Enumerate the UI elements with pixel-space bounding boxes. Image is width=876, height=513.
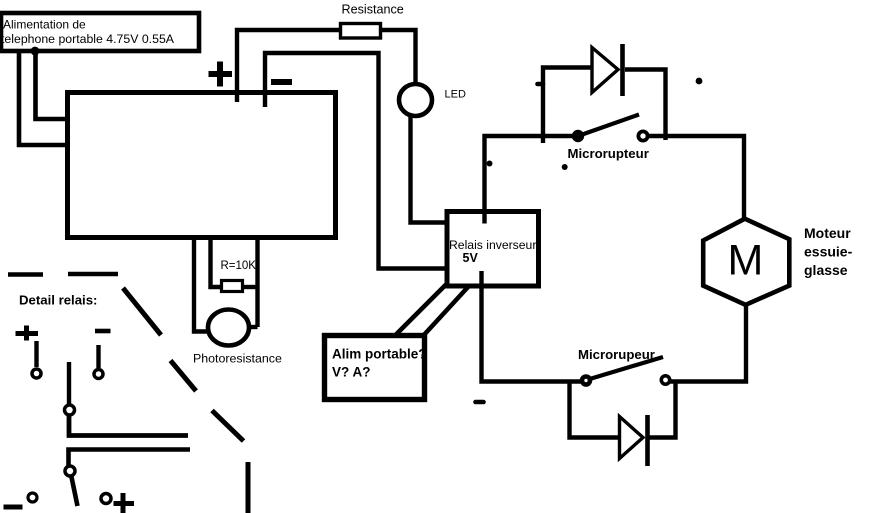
detail relais contact circle 4	[65, 466, 75, 476]
detail relais plus terminal	[16, 326, 39, 341]
detail relais dash 2	[68, 272, 118, 277]
wire minus terminal to relay pin 2	[265, 53, 446, 269]
detail relais contact circle 1	[32, 369, 41, 378]
svg-text:Detail relais:: Detail relais:	[19, 293, 97, 308]
detail relais wire circle 3 to bar	[69, 415, 188, 436]
wire relay bottom pin to microswitch 2	[482, 271, 583, 382]
detail relais lever	[72, 477, 78, 506]
wire resistor to LED	[381, 30, 416, 85]
svg-text:R=10K: R=10K	[221, 260, 257, 272]
detail relais bottom plus	[114, 493, 135, 513]
wire from supply to block input 1	[19, 51, 67, 145]
battery question box	[325, 336, 427, 400]
stray dot on relay top wire	[487, 161, 493, 167]
detail relais bottom minus	[4, 505, 23, 510]
detail relais contact circle 3	[65, 405, 75, 415]
svg-text:5V: 5V	[463, 251, 479, 265]
power supply box	[1, 13, 199, 51]
svg-text:LED: LED	[445, 89, 466, 101]
svg-text:Microrupteur: Microrupteur	[568, 146, 649, 161]
resistor R=10K	[221, 260, 257, 292]
microswitch S2	[578, 347, 670, 385]
svg-text:Photoresistance: Photoresistance	[193, 352, 282, 366]
cable line 1 relay to battery box	[396, 285, 446, 335]
wire diode 2 right to switch wire	[649, 382, 676, 438]
photoresistor R2	[193, 310, 282, 366]
wire resistor right to vertical	[242, 285, 258, 289]
svg-text:Moteur: Moteur	[804, 225, 851, 241]
svg-text:glasse: glasse	[804, 262, 848, 278]
detail relais contact circle 5	[28, 493, 37, 502]
wire diode 1 branch left vertical	[543, 68, 592, 144]
wire block pin down right side of divider	[255, 239, 259, 327]
wire relay top pin to microswitch 1	[485, 136, 579, 224]
resistor Resistance	[341, 3, 404, 39]
svg-text:Resistance: Resistance	[342, 3, 404, 17]
wire diode 1 right to branch vertical	[625, 70, 666, 141]
svg-text:Alimentation de: Alimentation de	[3, 18, 86, 32]
svg-text:V? A?: V? A?	[332, 365, 371, 380]
wire diode 2 branch left	[570, 382, 621, 438]
wire from supply to block input 2	[36, 51, 68, 119]
wire block pin to resistor R=10K	[211, 239, 223, 287]
wire motor bottom to microswitch 2	[670, 303, 746, 382]
detail relais middle wire	[67, 362, 71, 406]
wire plus terminal to resistor	[237, 30, 340, 102]
small dash mark below relay	[476, 400, 484, 405]
separator dash segment 3	[212, 411, 244, 442]
detail relais bar 2	[69, 450, 191, 467]
wire block pin to photoresistor left	[194, 239, 210, 332]
diode D2	[620, 415, 648, 466]
separator dash segment 1	[123, 288, 161, 335]
relay box U2	[447, 212, 539, 287]
plus terminal label	[209, 62, 233, 87]
motor M1	[703, 219, 852, 305]
LED D3	[399, 84, 466, 116]
svg-text:telephone portable 4.75V 0.55A: telephone portable 4.75V 0.55A	[1, 32, 175, 46]
detail relais contact circle 2	[94, 370, 103, 379]
wire photoresistor right to vertical	[247, 325, 258, 329]
minus terminal label	[271, 79, 292, 85]
separator dash segment 4	[246, 462, 251, 513]
wire microswitch 1 to motor	[647, 136, 744, 220]
detail relais minus terminal	[95, 329, 111, 334]
detail relais wire under plus	[34, 341, 38, 367]
control block U1	[68, 93, 336, 238]
cable line 2 relay to battery box	[423, 287, 469, 337]
detail relais wire under minus	[96, 345, 100, 368]
svg-text:essuie-: essuie-	[804, 244, 853, 260]
small tick on branch left vertical	[538, 82, 544, 87]
wire LED to relay pin 1	[411, 115, 447, 223]
svg-text:Alim portable?: Alim portable?	[332, 347, 427, 362]
diode D1	[592, 44, 623, 96]
microswitch S1	[568, 115, 649, 162]
svg-text:Microrupeur: Microrupeur	[578, 347, 655, 362]
detail relais dash 1	[8, 272, 43, 277]
separator dash segment 2	[171, 361, 197, 392]
detail relais contact circle 6	[101, 494, 111, 504]
stray dot right of diode 1	[696, 78, 703, 85]
svg-text:Relais inverseur: Relais inverseur	[449, 238, 536, 252]
stray dot below microswitch 1	[562, 164, 568, 170]
svg-text:M: M	[728, 237, 764, 285]
junction dot on supply box	[31, 47, 40, 56]
